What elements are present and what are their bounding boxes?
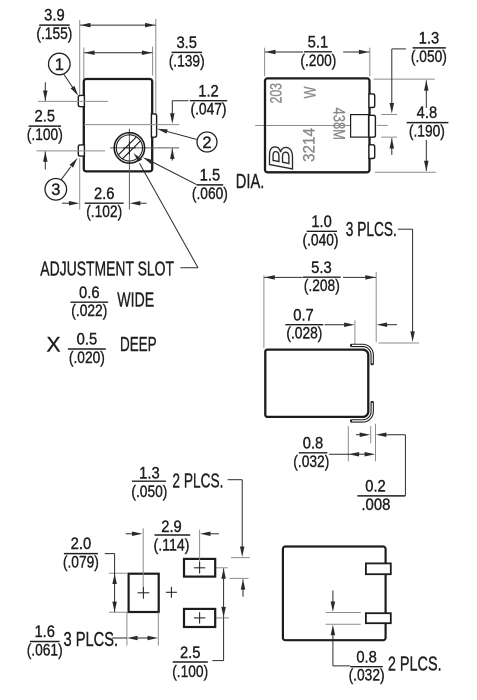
svg-text:0.7: 0.7 (293, 306, 314, 324)
svg-text:(.060): (.060) (192, 185, 228, 203)
pad 3 bottom (184, 609, 215, 627)
top J-lead (352, 345, 373, 363)
svg-text:1.2: 1.2 (198, 82, 219, 100)
dim 1.2 label (190, 100, 227, 102)
balloon 1 (49, 53, 71, 75)
svg-text:3: 3 (51, 181, 60, 199)
trimmer body (84, 79, 152, 171)
bottom pad centerline horizontal (215, 617, 229, 619)
svg-text:2.0: 2.0 (71, 535, 92, 553)
svg-text:(.032): (.032) (349, 667, 385, 685)
pin3 centerline (37, 150, 106, 152)
svg-text:(.200): (.200) (300, 52, 336, 70)
pad1 cross (138, 592, 150, 594)
svg-text:ADJUSTMENT SLOT: ADJUSTMENT SLOT (40, 259, 174, 281)
svg-text:WIDE: WIDE (117, 290, 154, 312)
adjustment screw inner circle (116, 135, 142, 161)
adjustment slot line a (119, 137, 137, 155)
dim 1.3 leader (392, 48, 406, 50)
dim 1.0 landing line (379, 342, 420, 344)
dim 1.3 2plcs leader (228, 479, 243, 481)
pin 3 tab (78, 145, 84, 156)
wiper centerline dash right (377, 124, 388, 126)
lead extension v3 (375, 424, 377, 462)
dim 0.2 arrows (356, 434, 360, 436)
dim 4.8 arrows (425, 80, 427, 108)
svg-text:(.139): (.139) (169, 52, 205, 70)
svg-text:DIA.: DIA. (236, 171, 264, 193)
extension line 3.9 right (155, 19, 157, 113)
adjustment slot leader (180, 267, 198, 269)
bottom J-lead (352, 403, 373, 421)
svg-text:3 PLCS.: 3 PLCS. (64, 629, 119, 651)
extension 5.1 right (369, 48, 371, 76)
svg-text:(.061): (.061) (27, 642, 63, 660)
screw horizontal centerline (110, 147, 179, 149)
svg-text:(.040): (.040) (303, 231, 339, 249)
svg-text:3 PLCS.: 3 PLCS. (346, 219, 397, 241)
dim 0.8 label (299, 452, 328, 454)
dim 3.9 line (80, 24, 156, 26)
extension 5.1 left (264, 48, 266, 76)
pads right centerline vertical (199, 530, 201, 568)
dim 3.5 label (172, 51, 203, 53)
svg-text:1.3: 1.3 (419, 30, 440, 48)
svg-text:5.1: 5.1 (308, 33, 329, 51)
svg-text:2: 2 (202, 134, 211, 152)
wiper centerline inner (267, 125, 351, 127)
dim 0.8 down arrow (332, 591, 334, 602)
svg-text:B: B (263, 146, 300, 170)
svg-text:DEEP: DEEP (120, 334, 157, 356)
dim 2.9 label (155, 534, 191, 536)
svg-text:3.9: 3.9 (44, 7, 65, 25)
dim 1.3 label (413, 47, 446, 49)
svg-text:(.020): (.020) (69, 349, 105, 367)
svg-text:0.2: 0.2 (365, 478, 386, 496)
extension 5.3 right (375, 272, 377, 342)
dim 2.5 label (173, 661, 208, 663)
extension line 2.6 left (79, 158, 81, 209)
svg-text:438M: 438M (329, 108, 347, 141)
dim 5.1 label (304, 51, 332, 53)
dim 2.0 extensions (109, 572, 127, 574)
lead extension v2 (370, 426, 372, 443)
dim 4.8 extension top (374, 78, 435, 80)
svg-text:(.190): (.190) (409, 122, 445, 140)
dim 5.1 line (265, 51, 303, 53)
dim 5.3 label (303, 276, 341, 278)
balloon 2 (197, 132, 217, 152)
balloon 3 (45, 179, 67, 201)
screw center cross (123, 147, 136, 149)
adjustment slot line b (123, 141, 141, 159)
dim 2.0 label (64, 553, 98, 555)
dim 2.5 label (29, 125, 61, 127)
tab bottom (366, 613, 391, 623)
center cross (166, 591, 177, 593)
svg-text:W: W (302, 86, 320, 98)
pin 2 tab (151, 114, 156, 137)
pin1 centerline (38, 100, 108, 102)
svg-text:(.028): (.028) (286, 325, 322, 343)
dim 2.6 label (85, 202, 124, 204)
svg-text:.008: .008 (361, 496, 390, 514)
pin2 centerline (84, 124, 179, 126)
tab bottom (369, 145, 375, 159)
svg-text:(.047): (.047) (191, 101, 227, 119)
pad 1 (129, 574, 159, 612)
tab middle (369, 115, 376, 137)
dim 2.5 arrows (223, 569, 225, 618)
extension 5.3 left (263, 275, 265, 348)
wiper plate box (351, 115, 369, 138)
extension top (326, 612, 361, 614)
dim 1.5 label (197, 184, 224, 186)
extension line 3.9 left (79, 20, 81, 95)
dim 1.0 leader (398, 228, 413, 230)
dim 3.9 label (39, 24, 69, 26)
dim 1.6 extensions (126, 612, 128, 645)
body (283, 547, 386, 641)
svg-text:5.3: 5.3 (311, 259, 332, 277)
body (265, 78, 370, 172)
svg-text:2 PLCS.: 2 PLCS. (388, 654, 442, 676)
svg-text:3214: 3214 (300, 128, 318, 162)
body (265, 350, 368, 417)
svg-text:(.079): (.079) (63, 554, 99, 572)
pad3 cross (194, 617, 205, 619)
extension line 3.5 left (83, 48, 85, 79)
dim 1.6 line (112, 637, 127, 639)
adjustment screw outer circle (114, 133, 144, 163)
pad2 cross (194, 567, 205, 569)
dim 1.3 up arrow (242, 579, 244, 596)
svg-text:1.0: 1.0 (311, 213, 332, 231)
dim 1.2 leader (172, 100, 188, 102)
dim 0.7 arrows (325, 324, 345, 326)
dim 1.6 label (30, 641, 60, 643)
pad 2 top (184, 559, 215, 577)
svg-text:(.155): (.155) (36, 25, 72, 43)
svg-text:3.5: 3.5 (176, 34, 197, 52)
svg-text:(.050): (.050) (411, 48, 447, 66)
svg-text:(.022): (.022) (71, 302, 107, 320)
dim 0.6 wide (70, 301, 108, 303)
screw vertical centerline (128, 129, 130, 210)
svg-text:X: X (47, 334, 61, 357)
extension bottom (326, 623, 361, 625)
svg-text:(.100): (.100) (27, 126, 63, 144)
dim 2.5 arrows (44, 82, 46, 101)
svg-text:2.9: 2.9 (161, 518, 182, 536)
dim 5.3 line (264, 276, 302, 278)
dim 2.6 line (62, 202, 70, 204)
dim 0.8 label (350, 666, 382, 668)
svg-text:(.032): (.032) (293, 453, 329, 471)
dim 0.8 leader (332, 646, 334, 666)
tab top (369, 94, 375, 108)
dim 2.9 line (126, 533, 133, 535)
dim 2.0 arrows (114, 554, 116, 612)
svg-text:(.114): (.114) (154, 537, 190, 555)
dim 3.5 line (84, 52, 152, 54)
svg-text:203: 203 (268, 83, 286, 104)
dim 1.3 extensions (381, 114, 397, 116)
dim 0.8 line (329, 453, 359, 455)
svg-text:4.8: 4.8 (417, 104, 438, 122)
svg-text:0.5: 0.5 (77, 331, 98, 349)
svg-text:2.5: 2.5 (35, 108, 56, 126)
dim 1.3 2plcs label (132, 480, 166, 482)
dim 2.5 leader (223, 617, 225, 660)
dim 0.7 label (285, 324, 323, 326)
svg-text:2.5: 2.5 (180, 644, 201, 662)
dim 4.8 extension bottom (375, 171, 436, 173)
svg-text:2 PLCS.: 2 PLCS. (172, 470, 223, 492)
svg-text:1.5: 1.5 (200, 167, 221, 185)
svg-text:0.6: 0.6 (79, 284, 100, 302)
svg-text:1: 1 (55, 56, 64, 74)
wiper centerline left (255, 125, 264, 127)
svg-text:0.8: 0.8 (356, 648, 377, 666)
svg-text:(.208): (.208) (304, 277, 340, 295)
dim 1.3 extensions (231, 557, 250, 559)
top pad centerline horizontal (215, 567, 228, 569)
svg-text:2.6: 2.6 (94, 185, 115, 203)
leader 1.5 dia (152, 162, 197, 185)
dim 4.8 label (407, 122, 449, 124)
svg-text:(.102): (.102) (86, 203, 122, 221)
pad1 centerline vertical (142, 528, 144, 593)
svg-text:(.050): (.050) (131, 483, 167, 501)
pin 1 tab (78, 95, 84, 106)
extension 0.7 (354, 320, 356, 345)
extension line 3.5 right (152, 47, 154, 76)
dim 1.0 label (307, 230, 337, 232)
svg-text:1.3: 1.3 (139, 465, 160, 483)
lead extension v1 (347, 426, 349, 461)
tab top (366, 563, 391, 574)
svg-text:(.100): (.100) (172, 663, 208, 681)
svg-text:1.6: 1.6 (34, 623, 55, 641)
dim 0.2 label (357, 495, 405, 497)
dim 2.0 leader (105, 553, 115, 555)
svg-text:0.8: 0.8 (303, 434, 324, 452)
dim 0.8 up arrow (332, 635, 334, 646)
